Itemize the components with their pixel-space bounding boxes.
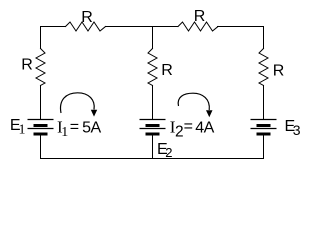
wire top-middle horizontal (106, 26, 179, 28)
mesh current arrow I1 (61, 93, 98, 117)
svg-text:R: R (273, 63, 285, 80)
battery E2 (140, 120, 166, 135)
svg-text:2: 2 (175, 124, 184, 141)
resistor R middle branch (148, 49, 157, 86)
svg-text:=: = (184, 118, 193, 135)
wire middle branch middle (152, 86, 154, 120)
resistor R right branch (259, 49, 268, 86)
svg-text:R: R (161, 62, 173, 79)
wire top-left horizontal (41, 26, 66, 28)
wire right branch lower (263, 134, 265, 159)
wire middle branch upper (152, 27, 154, 49)
wire middle branch lower (152, 134, 154, 159)
wire left branch lower (40, 134, 42, 159)
svg-text:4A: 4A (195, 120, 214, 137)
resistor R top-right (178, 22, 218, 31)
wire left branch middle (40, 86, 42, 120)
mesh current arrow I2 (178, 93, 212, 117)
svg-text:5A: 5A (82, 120, 101, 137)
wire top-right horizontal (218, 26, 264, 28)
wire right branch upper (263, 27, 265, 49)
svg-text:=: = (70, 118, 79, 135)
svg-text:E3: E3 (285, 118, 301, 138)
battery E3 (251, 120, 277, 135)
svg-text:R: R (81, 9, 93, 26)
wire left branch upper (40, 27, 42, 49)
svg-text:R: R (21, 57, 33, 74)
wire bottom horizontal (41, 158, 264, 160)
resistor R left branch (36, 49, 45, 86)
svg-text:R: R (194, 8, 206, 25)
resistor R top-left (66, 22, 106, 31)
wire right branch middle (263, 86, 265, 120)
battery E1 (28, 120, 54, 135)
